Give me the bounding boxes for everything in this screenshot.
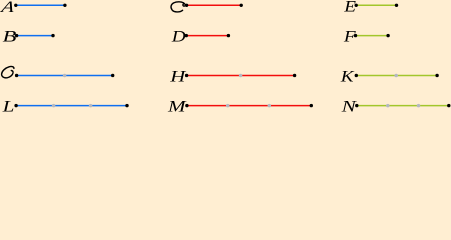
node D start dot xyxy=(185,34,188,37)
node M end dot xyxy=(310,104,313,107)
node F end dot xyxy=(386,34,389,37)
svg-text:E: E xyxy=(343,0,356,15)
node E start dot xyxy=(355,4,358,7)
svg-text:H: H xyxy=(169,68,187,86)
wire segment M (red) xyxy=(187,105,311,107)
wire segment G (blue) xyxy=(17,74,113,76)
node L trisection dot 2 xyxy=(89,104,93,108)
node C start dot xyxy=(185,4,188,7)
node G end dot xyxy=(111,74,114,77)
node M trisection dot 1 xyxy=(226,104,230,108)
node A start dot xyxy=(14,4,17,7)
node K start dot xyxy=(355,74,358,77)
node K midpoint dot xyxy=(394,74,398,78)
node L trisection dot 1 xyxy=(52,104,56,108)
node N trisection dot 1 xyxy=(386,104,390,108)
node G start dot xyxy=(15,74,18,77)
node L start dot xyxy=(14,104,17,107)
node K end dot xyxy=(435,74,438,77)
svg-text:D: D xyxy=(171,27,186,45)
label C xyxy=(171,2,185,12)
wire segment A (blue) xyxy=(16,4,65,6)
wire segment B (blue) xyxy=(17,35,53,37)
svg-text:N: N xyxy=(340,98,357,112)
label G xyxy=(2,66,14,77)
svg-text:L: L xyxy=(2,98,15,112)
node H start dot xyxy=(185,74,188,77)
wire segment E (green) xyxy=(356,4,396,6)
node D end dot xyxy=(227,34,230,37)
wire segment K (green) xyxy=(356,74,437,76)
node G midpoint dot xyxy=(63,74,67,78)
wire segment H (red) xyxy=(187,74,295,76)
node E end dot xyxy=(395,4,398,7)
node H end dot xyxy=(293,74,296,77)
svg-text:F: F xyxy=(343,27,356,45)
wire segment L (blue) xyxy=(16,105,127,107)
node H midpoint dot xyxy=(239,74,243,78)
node A end dot xyxy=(63,4,66,7)
node L end dot xyxy=(125,104,128,107)
wire segment N (green) xyxy=(357,105,449,107)
node C end dot xyxy=(240,4,243,7)
node N start dot xyxy=(355,104,358,107)
node N trisection dot 2 xyxy=(417,104,421,108)
node M start dot xyxy=(185,104,188,107)
node F start dot xyxy=(354,34,357,37)
node B start dot xyxy=(15,34,18,37)
svg-text:K: K xyxy=(340,67,355,85)
wire segment D (red) xyxy=(186,35,228,37)
svg-text:M: M xyxy=(167,98,187,112)
wire segment C (red) xyxy=(187,4,242,6)
svg-text:B: B xyxy=(3,28,17,46)
node N end dot xyxy=(447,104,450,107)
node B end dot xyxy=(51,34,54,37)
wire segment F (green) xyxy=(356,35,389,37)
node M trisection dot 2 xyxy=(268,104,272,108)
